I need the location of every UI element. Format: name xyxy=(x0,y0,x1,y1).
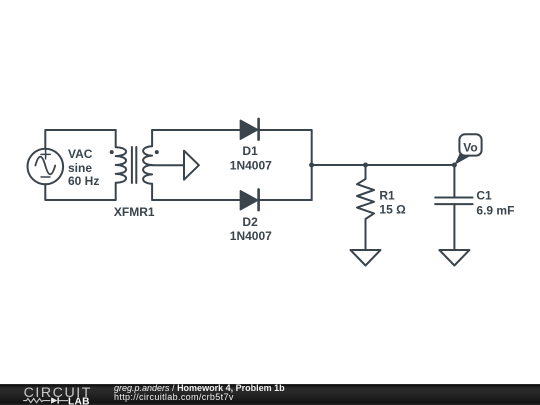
svg-text:R1: R1 xyxy=(379,189,395,203)
svg-text:15 Ω: 15 Ω xyxy=(379,203,406,217)
ground xyxy=(351,250,381,266)
junction xyxy=(452,163,457,168)
transformer XFMR1 xyxy=(110,130,199,200)
footer credit text xyxy=(114,384,285,403)
svg-text:D2: D2 xyxy=(242,215,258,229)
svg-text:LAB: LAB xyxy=(68,396,90,405)
CircuitLab logo xyxy=(0,384,110,405)
svg-text:sine: sine xyxy=(68,161,92,175)
transformer XFMR1 center tap arrow xyxy=(184,151,199,180)
transformer XFMR1 secondary winding xyxy=(143,130,152,200)
svg-text:1N4007: 1N4007 xyxy=(230,229,272,243)
capacitor C1 xyxy=(435,165,472,250)
wire xyxy=(259,130,312,200)
svg-text:C1: C1 xyxy=(476,189,492,203)
wire xyxy=(152,199,240,201)
svg-text:XFMR1: XFMR1 xyxy=(114,205,155,219)
svg-text:Vo: Vo xyxy=(463,140,477,154)
label V1 value VAC sine 60 Hz xyxy=(68,147,99,188)
svg-text:1N4007: 1N4007 xyxy=(230,158,272,172)
transformer XFMR1 primary dot xyxy=(110,150,114,154)
svg-text:6.9 mF: 6.9 mF xyxy=(476,204,514,218)
ground xyxy=(439,250,469,266)
junction xyxy=(309,163,314,168)
wire xyxy=(45,184,115,200)
transformer XFMR1 center tap wire xyxy=(152,164,184,166)
wire xyxy=(152,129,240,131)
svg-text:D1: D1 xyxy=(242,144,258,158)
svg-text:VAC: VAC xyxy=(68,147,93,161)
transformer XFMR1 secondary dot xyxy=(155,150,159,154)
transformer XFMR1 primary winding xyxy=(116,130,126,200)
diode D2 xyxy=(240,189,258,210)
wire xyxy=(259,199,312,201)
voltage source V1 xyxy=(28,149,64,185)
node Vo xyxy=(454,134,481,165)
resistor R1 xyxy=(357,165,374,250)
wire xyxy=(45,130,115,149)
transformer XFMR1 core xyxy=(132,147,136,183)
junction xyxy=(363,163,368,168)
diode D1 xyxy=(240,119,258,140)
svg-text:60 Hz: 60 Hz xyxy=(68,174,99,188)
footer bar xyxy=(0,384,540,405)
wire xyxy=(312,164,455,166)
